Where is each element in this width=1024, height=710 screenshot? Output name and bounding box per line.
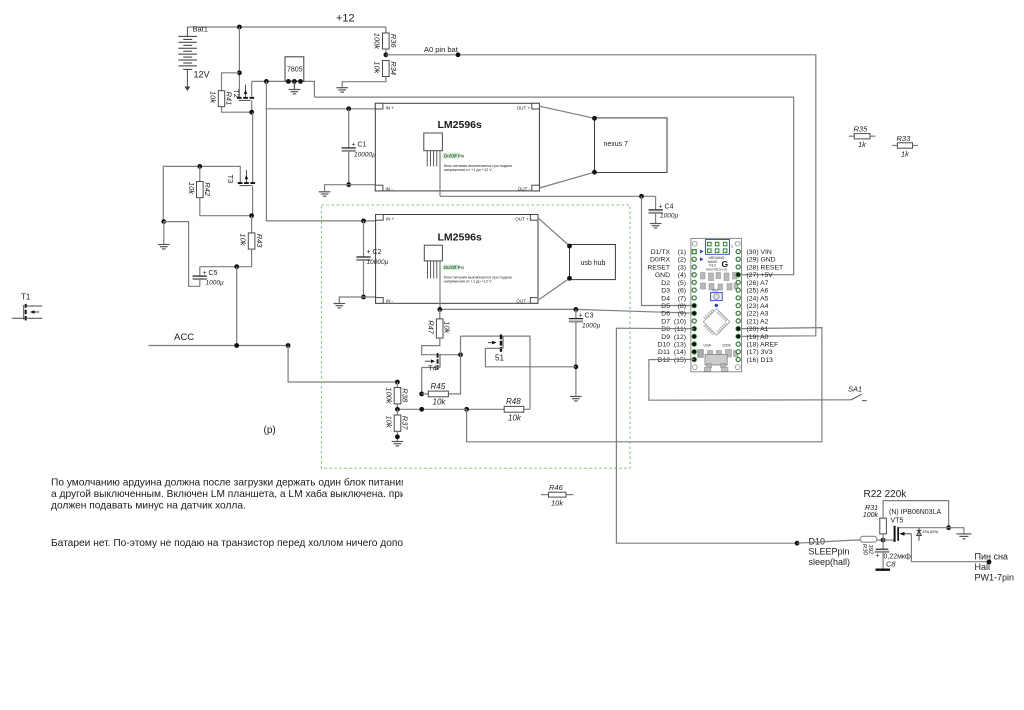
svg-text:1: 1 [731, 245, 733, 249]
svg-text:A0 pin bat: A0 pin bat [424, 45, 459, 54]
resistor R33 [892, 134, 918, 159]
svg-text:(p): (p) [264, 425, 276, 436]
svg-text:(26) A7: (26) A7 [747, 280, 769, 287]
junction dot R22 loop [946, 525, 951, 530]
junction dot mid [419, 407, 424, 412]
junction dot left gnd [161, 219, 166, 224]
svg-text:IN +: IN + [386, 105, 395, 110]
svg-text:R43: R43 [255, 234, 264, 249]
wire T3 gate feed [163, 166, 240, 221]
junction dot sleep [795, 541, 800, 546]
svg-text:(14): (14) [674, 349, 686, 356]
junction dot gate node [881, 538, 886, 543]
svg-text:D0/RX: D0/RX [650, 257, 670, 264]
wire 7805 input rail [252, 81, 315, 97]
svg-text:+ C4: + C4 [659, 204, 674, 211]
arduino nano board [691, 238, 742, 371]
svg-text:(24) A5: (24) A5 [747, 295, 769, 302]
svg-text:(20) A1: (20) A1 [747, 326, 769, 333]
wire long +5V rail [314, 97, 793, 275]
svg-text:D1/TX: D1/TX [651, 249, 671, 256]
svg-text:D11: D11 [658, 349, 670, 356]
svg-text:10k: 10k [508, 414, 522, 423]
junction dot A0 divider [384, 52, 389, 57]
svg-text:(7): (7) [678, 295, 686, 302]
wire OnOff pin long lead 2 [439, 261, 441, 310]
svg-text:D10: D10 [658, 342, 671, 349]
svg-text:(2): (2) [678, 257, 686, 264]
svg-text:nexus 7: nexus 7 [604, 141, 629, 148]
resistor R42 [187, 166, 252, 215]
svg-text:Пин сна: Пин сна [975, 552, 1008, 562]
resistor R45 [422, 336, 461, 406]
svg-text:+12: +12 [336, 13, 355, 25]
junction dot T4 drain [458, 352, 463, 357]
junction dot C3 top [574, 307, 579, 312]
svg-text:D6: D6 [661, 311, 670, 318]
junction dot R48 left [464, 407, 469, 412]
svg-text:IN -: IN - [386, 186, 394, 191]
wire OUT- diagonal to usb hub [538, 278, 570, 300]
svg-text:OUT -: OUT - [516, 299, 529, 304]
junction dot R37 top [395, 407, 400, 412]
svg-text:10k: 10k [209, 91, 218, 104]
svg-text:10000µ: 10000µ [354, 152, 376, 159]
transistor T1 [12, 293, 43, 321]
svg-text:а другой выключенным. Включен: а другой выключенным. Включен LM планшет… [51, 488, 431, 500]
svg-text:D4: D4 [661, 295, 670, 302]
ground 7805 [289, 81, 301, 94]
resistor R46 [541, 483, 574, 508]
svg-text:+ C1: + C1 [352, 142, 367, 149]
ground C3 [570, 397, 582, 401]
resistor R48 [467, 397, 530, 423]
wire sleep to gate resistor [797, 540, 860, 543]
svg-text:1000µ: 1000µ [660, 213, 678, 220]
wire LM2 IN- [339, 297, 375, 304]
ground LM2 IN- [334, 304, 346, 308]
resistor R41 [209, 73, 252, 112]
svg-text:(10): (10) [674, 318, 686, 325]
svg-text:1000µ: 1000µ [206, 280, 224, 287]
svg-text:1000µ: 1000µ [582, 322, 600, 329]
svg-text:(22) A3: (22) A3 [747, 311, 769, 318]
svg-text:392: 392 [867, 544, 874, 555]
svg-text:(17) 3V3: (17) 3V3 [747, 349, 773, 356]
capacitor C5 [193, 267, 224, 287]
regulator 7805 [285, 57, 304, 84]
svg-text:(1): (1) [678, 249, 686, 256]
junction dot D5 branch [639, 194, 644, 199]
svg-text:LM2596s: LM2596s [438, 119, 483, 131]
svg-text:D12: D12 [658, 357, 671, 364]
svg-text:(13): (13) [674, 342, 686, 349]
wire to LM2 IN+ [266, 109, 375, 221]
svg-text:R35: R35 [854, 125, 869, 134]
wire OnOff pin long lead [439, 151, 441, 197]
capacitor C2 [356, 221, 370, 297]
wire R48 node to A1 [467, 328, 822, 442]
load usb hub [567, 244, 615, 281]
transistor VT5 [883, 509, 989, 562]
junction dot ACC2 [286, 343, 291, 348]
transistor T2 [232, 81, 254, 112]
svg-text:(21) A2: (21) A2 [747, 318, 769, 325]
svg-text:(5): (5) [678, 280, 686, 287]
capacitor C2 labels [367, 249, 389, 266]
svg-text:(25) A6: (25) A6 [747, 288, 769, 295]
svg-text:USA: USA [704, 344, 712, 348]
module LM2596s #1 [375, 103, 539, 196]
svg-text:RESET: RESET [647, 264, 670, 271]
junction dot R43 top [249, 213, 254, 218]
wire D12 to SA1 [649, 359, 851, 400]
svg-text:D9: D9 [661, 334, 670, 341]
resistor R36 [373, 27, 398, 55]
svg-text:D2: D2 [661, 280, 670, 287]
svg-text:1k: 1k [858, 140, 867, 149]
svg-text:R36: R36 [389, 34, 398, 49]
svg-text:100k: 100k [384, 387, 393, 405]
svg-text:LM2596s: LM2596s [438, 231, 483, 243]
svg-text:(3): (3) [678, 264, 686, 271]
svg-text:(23) A4: (23) A4 [747, 303, 769, 310]
svg-text:10k: 10k [187, 182, 196, 195]
svg-text:(8): (8) [678, 303, 686, 310]
ground VT5 source [956, 534, 971, 539]
svg-text:12V: 12V [194, 70, 210, 80]
svg-text:PW1-7pin: PW1-7pin [975, 573, 1015, 583]
junction dot C2 bottom [361, 295, 366, 300]
svg-text:GND: GND [655, 272, 670, 279]
svg-text:R46: R46 [549, 483, 564, 492]
svg-text:100k: 100k [863, 512, 879, 519]
svg-text:(30) VIN: (30) VIN [747, 249, 772, 256]
resistor R34 [342, 61, 398, 88]
junction dot R41 top [237, 70, 242, 75]
transistor T3 [226, 112, 255, 216]
wire A0 pin bat [386, 55, 816, 337]
junction dot C3 gate51 [574, 364, 579, 369]
svg-text:R48: R48 [506, 397, 521, 406]
capacitor C8 [875, 540, 911, 571]
svg-text:usb hub: usb hub [581, 260, 606, 267]
svg-text:(12): (12) [674, 334, 686, 341]
svg-text:(28) RESET: (28) RESET [747, 264, 784, 271]
capacitor C1 [342, 109, 356, 185]
svg-text:Bat1: Bat1 [193, 25, 208, 34]
svg-text:D8: D8 [661, 326, 670, 333]
resistor R37 [384, 409, 409, 441]
svg-text:OUT +: OUT + [517, 105, 531, 110]
arduino pads [692, 249, 741, 362]
svg-text:2009: 2009 [723, 344, 731, 348]
green dashed region [322, 205, 631, 468]
svg-text:(19) A0: (19) A0 [747, 334, 769, 341]
svg-text:10k: 10k [384, 416, 393, 429]
ground LM1 IN- [319, 192, 331, 196]
junction dot C2 top [361, 219, 366, 224]
svg-text:R37: R37 [401, 416, 410, 431]
junction dot R45 left [419, 392, 424, 397]
svg-text:(16) D13: (16) D13 [747, 357, 774, 364]
wire rail OnOff2 to D6 [440, 309, 694, 313]
switch SA1 [848, 385, 867, 401]
svg-text:(18) AREF: (18) AREF [747, 342, 779, 349]
module LM2596s #2 [376, 215, 538, 310]
transistor 51 [485, 335, 576, 367]
resistor R43 [200, 216, 264, 267]
svg-text:(4): (4) [678, 272, 686, 279]
wire OUT- diagonal to nexus [539, 172, 594, 188]
junction dot T2/R41 bottom [249, 110, 254, 115]
junction dot ACC drop [234, 264, 239, 269]
junction dot C1 bottom [346, 182, 351, 187]
ground C4 [650, 224, 662, 228]
battery Bat1 [178, 25, 209, 92]
svg-text:On/Off Pin: On/Off Pin [444, 265, 465, 270]
capacitor C3 [569, 309, 601, 396]
svg-text:защ.диод: защ.диод [923, 530, 940, 534]
svg-text:(29) GND: (29) GND [747, 257, 776, 264]
junction dot +12/T2 [237, 25, 242, 30]
wire D8 to sleep line [616, 328, 797, 543]
svg-text:напряжения от +1 до +12 V: напряжения от +1 до +12 V [444, 168, 492, 172]
svg-text:D5: D5 [661, 303, 670, 310]
svg-text:+ C2: + C2 [367, 249, 382, 256]
svg-text:G: G [722, 259, 729, 269]
junction dot ACC1 [234, 343, 239, 348]
wire R47 to T4 drain [422, 338, 461, 355]
svg-text:sleep(hall): sleep(hall) [809, 557, 851, 567]
svg-text:T2: T2 [232, 89, 241, 98]
junction dot R38 top [395, 380, 400, 385]
svg-text:+ C5: + C5 [203, 270, 218, 277]
svg-text:(11): (11) [674, 326, 686, 333]
wire 7805 to LM1 IN+ [266, 81, 375, 108]
svg-text:10k: 10k [443, 321, 452, 334]
svg-text:Батареи нет. По-этому не подаю: Батареи нет. По-этому не подаю на транзи… [51, 538, 453, 549]
wire OUT+ diagonal to usb hub [538, 218, 570, 246]
svg-text:R38: R38 [401, 388, 410, 403]
svg-text:OUT -: OUT - [518, 186, 531, 191]
diode body VT5 [917, 528, 940, 541]
load nexus 7 [592, 116, 667, 175]
svg-text:100k: 100k [373, 33, 382, 51]
svg-text:51: 51 [495, 354, 504, 363]
capacitor C4 [649, 196, 679, 223]
svg-text:C8: C8 [886, 560, 896, 569]
ground left chain [158, 245, 170, 249]
wire C5 return [164, 222, 200, 287]
svg-text:VT5: VT5 [891, 518, 904, 525]
svg-text:IN +: IN + [386, 217, 395, 222]
wire ACC to R38 [288, 346, 397, 383]
arduino pin labels left [647, 249, 686, 364]
svg-text:(15): (15) [674, 357, 686, 364]
svg-text:RST: RST [713, 289, 719, 293]
svg-text:10k: 10k [551, 499, 564, 508]
wire OUT+ diagonal to nexus [539, 106, 594, 118]
wire LM1 IN- [325, 185, 376, 192]
svg-text:(27) +5V: (27) +5V [747, 272, 774, 279]
resistor R31 [863, 501, 949, 540]
wire D5 [642, 196, 695, 305]
wire ACC [148, 345, 288, 347]
svg-text:10k: 10k [373, 61, 382, 74]
svg-text:D3: D3 [661, 288, 670, 295]
svg-text:должен подавать минус на датчи: должен подавать минус на датчик холла. [51, 501, 246, 512]
arduino pin labels right [747, 249, 784, 364]
svg-text:(9): (9) [678, 311, 686, 318]
resistor R35 [849, 125, 876, 149]
svg-text:R45: R45 [431, 382, 446, 391]
transistor T4 [422, 353, 440, 394]
svg-text:(N) IPB06N03LA: (N) IPB06N03LA [889, 509, 941, 516]
svg-text:T4: T4 [428, 364, 437, 373]
svg-text:R22 220k: R22 220k [864, 489, 908, 500]
wire rail OnOff1 [440, 195, 656, 197]
svg-text:IN -: IN - [386, 299, 394, 304]
svg-text:T3: T3 [226, 175, 235, 184]
svg-text:7805: 7805 [287, 67, 303, 74]
svg-text:D7: D7 [661, 318, 670, 325]
wire T2 gate drop [238, 27, 240, 97]
svg-text:R31: R31 [865, 505, 878, 512]
svg-text:R47: R47 [426, 320, 435, 335]
wire ACC vertical [236, 267, 238, 346]
svg-text:R34: R34 [389, 61, 398, 75]
capacitor C1 labels [352, 142, 377, 159]
svg-text:10k: 10k [239, 233, 248, 246]
junction dot R42 top [197, 164, 202, 169]
svg-text:1k: 1k [901, 149, 910, 158]
svg-text:T1: T1 [21, 293, 31, 302]
svg-text:On/Off Pin: On/Off Pin [444, 153, 465, 158]
svg-text:10000µ: 10000µ [367, 259, 389, 266]
svg-text:10k: 10k [433, 398, 447, 407]
svg-text:R42: R42 [203, 182, 212, 197]
wire loop top [461, 336, 531, 409]
svg-text:SLEEPpin: SLEEPpin [809, 547, 850, 557]
resistor R38 [384, 382, 409, 409]
svg-text:(6): (6) [678, 288, 686, 295]
svg-text:+ C3: + C3 [579, 312, 594, 319]
svg-text:ACC: ACC [174, 332, 194, 343]
ground R34 [336, 88, 348, 92]
svg-text:+: + [876, 553, 880, 560]
resistor R30 [860, 536, 883, 555]
svg-text:OUT +: OUT + [515, 217, 529, 222]
svg-text:R33: R33 [897, 134, 912, 143]
junction dot C1 top [346, 106, 351, 111]
svg-text:напряжения от +1 до +12 V: напряжения от +1 до +12 V [444, 280, 492, 284]
wire +12 rail [187, 26, 386, 28]
note text block [51, 477, 469, 550]
resistor R47 [426, 309, 451, 338]
junction dot R37 bottom [395, 434, 400, 439]
wire left gnd drop [163, 222, 165, 245]
svg-text:SA1: SA1 [848, 385, 862, 394]
junction dot R47 top [437, 307, 442, 312]
ground R37 [392, 442, 404, 446]
wire R38 R48 link [397, 408, 466, 410]
junction dot hall [987, 560, 992, 565]
junction dot LM2 feed [264, 79, 269, 84]
